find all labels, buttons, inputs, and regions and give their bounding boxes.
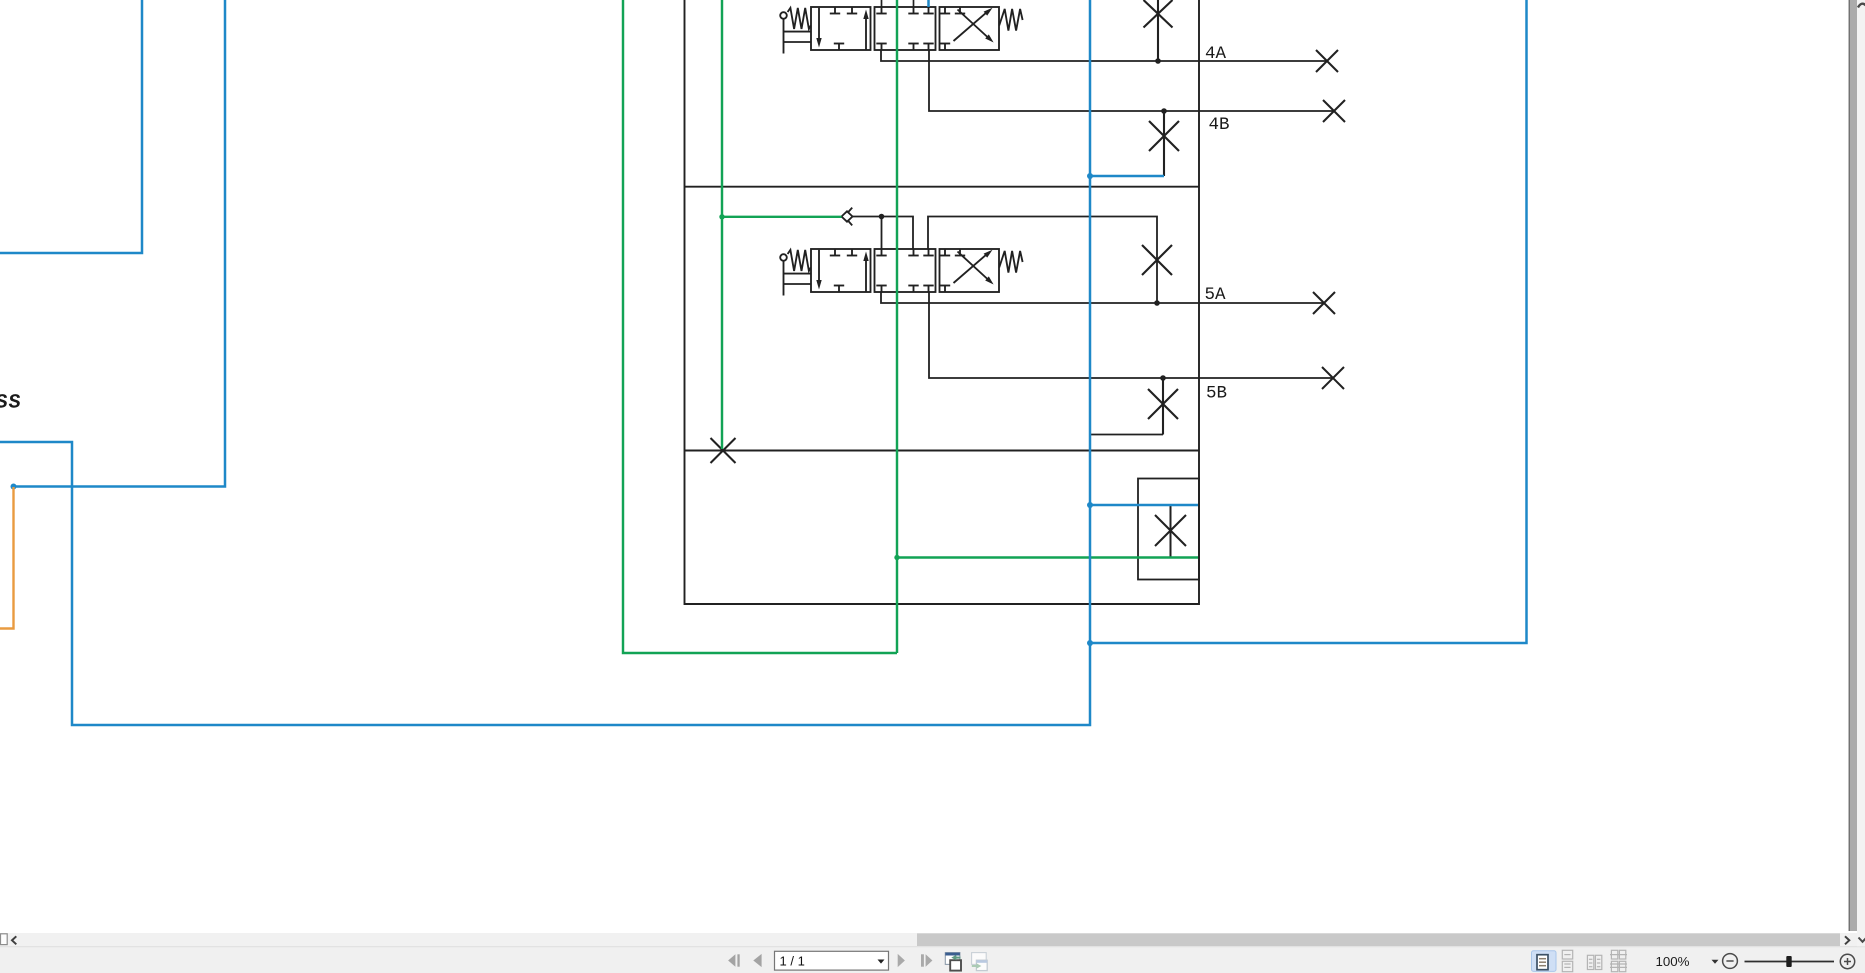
svg-text:4B: 4B xyxy=(1209,115,1230,135)
wire: blue main tank rail xyxy=(0,0,1090,725)
junction node blue right xyxy=(1087,640,1093,646)
junction node blue outlet xyxy=(1087,502,1093,508)
two page continuous layout button xyxy=(1610,950,1627,971)
plugged end X of 5B xyxy=(1322,367,1344,389)
right page edge line xyxy=(1849,0,1850,931)
vertical scrollbar thumb band xyxy=(1850,0,1857,931)
junction node green pilot xyxy=(719,214,724,219)
junction node on 5B xyxy=(1160,375,1166,381)
vertical scrollbar track xyxy=(1857,0,1865,946)
zoom slider track xyxy=(1745,961,1835,963)
wire: orange hose xyxy=(0,487,14,629)
plugged port X on lower divider xyxy=(711,438,736,463)
next view button (disabled) xyxy=(972,953,988,971)
wire: blue hose top-left rectangle xyxy=(0,0,142,253)
horizontal scrollbar thumb xyxy=(917,933,1840,946)
vertical scrollbar top arrow (clipped) xyxy=(1858,4,1865,8)
next page button xyxy=(898,954,905,967)
plug branch X above 4A xyxy=(1144,0,1173,61)
vertical scrollbar bottom arrow (clipped) xyxy=(1859,938,1865,942)
wire: blue branch to 4B plug xyxy=(1090,175,1164,178)
wire: loop to 5A plug branch xyxy=(928,217,1157,304)
zoom slider handle xyxy=(1786,956,1791,967)
wire: blue run to right riser xyxy=(1090,0,1527,643)
svg-text:4A: 4A xyxy=(1205,44,1227,64)
status bar top edge xyxy=(0,946,1865,948)
horizontal scrollbar track xyxy=(0,933,1857,947)
plug X on 5A branch xyxy=(1142,245,1172,275)
blue pilot stub above V4 xyxy=(927,0,930,7)
junction node green return xyxy=(894,555,899,560)
previous view button xyxy=(945,953,961,971)
svg-text:1 / 1: 1 / 1 xyxy=(780,954,805,969)
horizontal scrollbar right arrow xyxy=(1845,936,1849,944)
scrollbar corner box xyxy=(1,934,8,945)
pilot port stub above V4 xyxy=(881,0,883,7)
test coupling (diamond) on pilot feed xyxy=(842,208,853,226)
zoom out button xyxy=(1723,954,1738,969)
junction node blue/orange xyxy=(11,484,17,490)
horizontal scrollbar left arrow xyxy=(12,936,16,944)
page dropdown arrow xyxy=(878,960,885,964)
junction node pilot feed xyxy=(879,214,885,220)
previous page button xyxy=(753,954,761,967)
valve block outline xyxy=(685,0,1200,604)
wire: green branch to outlet box xyxy=(897,556,1198,558)
wire: green pilot branch to coupling xyxy=(722,216,842,218)
plug branch X below 5B with drain to blue rail xyxy=(1148,378,1178,435)
wire: green return riser (right) xyxy=(896,0,898,653)
status bar background xyxy=(0,947,1865,973)
svg-text:100%: 100% xyxy=(1656,954,1690,969)
junction node on 4A xyxy=(1155,58,1161,64)
4/3 directional control valve V5 xyxy=(780,249,1022,296)
page number box xyxy=(775,951,889,970)
pilot port stub above V4 (2) xyxy=(913,0,915,7)
4/3 directional control valve V4 xyxy=(780,7,1022,54)
wire: pilot feed to V5 xyxy=(853,217,914,250)
plugged end X of 5A xyxy=(1313,292,1335,314)
svg-text:5A: 5A xyxy=(1205,285,1227,305)
wire: port 4B xyxy=(929,50,1334,111)
plugged end X of 4A xyxy=(1316,50,1338,72)
two page layout button xyxy=(1587,955,1601,969)
first page button xyxy=(728,954,740,966)
junction node on 4B xyxy=(1161,108,1167,114)
plugged end X of 4B xyxy=(1323,100,1345,122)
wire: port 4A xyxy=(881,50,1327,61)
last page button xyxy=(921,954,932,966)
wire: green supply riser (left) with bottom run xyxy=(623,0,897,653)
zoom dropdown arrow xyxy=(1712,960,1719,964)
wire: blue hose second riser xyxy=(13,0,225,487)
section divider between valve 5 and outlet section xyxy=(685,450,1200,452)
wire: blue branch to outlet box xyxy=(1090,504,1198,507)
orifice X inside outlet box xyxy=(1155,505,1186,558)
wire: port 5B xyxy=(929,292,1333,378)
svg-text:5B: 5B xyxy=(1206,384,1227,404)
wire: 5B drain horizontal xyxy=(1091,434,1163,436)
junction node blue 4B xyxy=(1087,173,1093,179)
stub from pilot feed into V5 xyxy=(881,217,883,250)
continuous layout button xyxy=(1562,950,1572,971)
junction node on 5A xyxy=(1154,300,1160,306)
wire: green pilot riser (middle) xyxy=(721,0,723,449)
zoom in button xyxy=(1840,954,1854,968)
svg-text:SS: SS xyxy=(0,392,23,415)
section divider between valve 4 and valve 5 xyxy=(685,186,1200,188)
wire: port 5A xyxy=(881,292,1324,303)
outlet check box xyxy=(1138,479,1199,580)
single page layout button (selected) xyxy=(1532,951,1557,972)
plug branch X below 4B xyxy=(1149,111,1179,176)
